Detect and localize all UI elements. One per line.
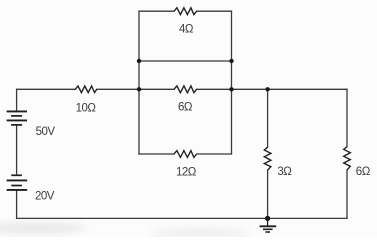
svg-text:50V: 50V xyxy=(36,126,56,138)
wire: left rail lower segment xyxy=(16,190,18,218)
wire: inner box left vertical xyxy=(138,11,140,154)
wire: node B to right rail xyxy=(268,88,347,90)
wire: bottom branch right lead from 12-ohm xyxy=(197,153,232,155)
ground symbol xyxy=(260,218,277,232)
scan shadow bottom-center xyxy=(150,229,250,238)
node A junction dot xyxy=(137,87,141,91)
battery V2 20V plates xyxy=(11,174,22,176)
wire: inner box right vertical xyxy=(231,11,233,154)
svg-text:10Ω: 10Ω xyxy=(76,102,97,114)
resistor 6ohm middle body xyxy=(174,86,197,93)
resistor 6ohm right body (vertical) xyxy=(344,147,351,171)
wire: middle connector between node columns xyxy=(139,60,232,62)
resistor R1 10ohm body xyxy=(75,86,97,93)
resistor 3ohm body (vertical) xyxy=(264,147,271,170)
battery V1 50V plates xyxy=(7,110,27,112)
wire: right rail lower lead xyxy=(346,170,348,218)
wire: right rail upper lead xyxy=(346,89,348,146)
wire: left rail between batteries xyxy=(16,125,18,175)
scan shadow bottom-left xyxy=(0,222,86,234)
node B junction dot xyxy=(229,87,233,91)
wire: 3-ohm branch upper lead xyxy=(267,89,269,147)
ground node junction dot xyxy=(265,216,270,221)
wire: top branch right lead from 4-ohm xyxy=(197,10,232,12)
wire: bottom horizontal rail xyxy=(17,217,347,219)
resistor 12ohm body xyxy=(174,151,197,158)
wire: bottom branch left lead to 12-ohm xyxy=(139,153,174,155)
wire: 6-ohm to node B xyxy=(197,88,268,90)
svg-text:6Ω: 6Ω xyxy=(356,166,371,178)
svg-text:20V: 20V xyxy=(35,190,55,202)
node junction dot left-mid xyxy=(137,59,141,63)
svg-text:3Ω: 3Ω xyxy=(277,166,292,178)
svg-text:6Ω: 6Ω xyxy=(178,102,193,114)
svg-text:4Ω: 4Ω xyxy=(179,23,194,35)
svg-text:12Ω: 12Ω xyxy=(176,166,197,178)
wire: 3-ohm branch lower lead xyxy=(267,170,269,218)
wire: 10-ohm to node A xyxy=(97,88,174,90)
wire: left rail upper segment xyxy=(16,89,18,111)
resistor 4ohm body xyxy=(174,8,197,15)
wire: main top horizontal, left rail to 10-ohm xyxy=(17,88,76,90)
node C junction dot xyxy=(265,87,269,91)
wire: top branch left lead to 4-ohm xyxy=(139,10,174,12)
node junction dot right-mid xyxy=(229,59,233,63)
